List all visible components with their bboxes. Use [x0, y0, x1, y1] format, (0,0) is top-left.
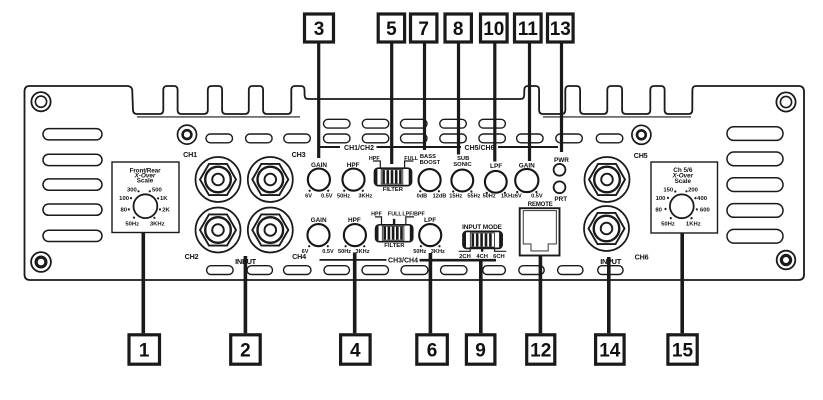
filter switch CH3/CH4 — [371, 211, 425, 249]
svg-text:600: 600 — [700, 207, 711, 213]
knob GAIN CH5/CH6 — [515, 162, 543, 199]
knob BASS BOOST — [417, 154, 447, 200]
RCA jack CH6 — [584, 206, 629, 251]
svg-text:5: 5 — [386, 19, 397, 40]
svg-text:6V: 6V — [305, 194, 312, 200]
INPUT MODE switch — [459, 224, 507, 260]
recess shadow line right — [543, 116, 691, 118]
knob HPF CH3/CH4 — [338, 217, 370, 255]
svg-text:3KHz: 3KHz — [150, 222, 165, 228]
svg-text:FILTER: FILTER — [384, 243, 405, 249]
svg-text:0dB: 0dB — [417, 194, 428, 200]
knob LPF CH5/CH6 — [483, 163, 516, 200]
RCA jack CH1 — [196, 157, 241, 202]
svg-text:300: 300 — [127, 187, 138, 193]
callout box 6 — [417, 335, 448, 364]
bracket CH5/CH6 — [425, 145, 558, 152]
svg-text:CH5: CH5 — [634, 151, 648, 160]
callout line 12 — [539, 256, 543, 334]
svg-text:0.5V: 0.5V — [321, 194, 333, 200]
Front/Rear dial knob — [134, 194, 158, 218]
svg-text:50Hz: 50Hz — [413, 249, 426, 255]
LED PWR — [554, 157, 570, 176]
svg-text:SONIC: SONIC — [453, 162, 472, 168]
mounting nut left — [178, 125, 197, 144]
svg-text:CH2: CH2 — [185, 252, 199, 261]
svg-text:50Hz: 50Hz — [483, 194, 496, 200]
knob GAIN CH3/CH4 — [302, 217, 334, 255]
svg-text:4: 4 — [350, 340, 361, 361]
svg-text:CH3/CH4: CH3/CH4 — [388, 258, 418, 265]
svg-text:PWR: PWR — [554, 157, 569, 164]
knob LPF CH3/CH4 — [413, 217, 445, 255]
svg-text:50Hz: 50Hz — [337, 194, 350, 200]
callout box 3 — [305, 14, 334, 42]
svg-text:15Hz: 15Hz — [449, 194, 462, 200]
bracket CH3/CH4 — [320, 258, 497, 265]
svg-text:50Hz: 50Hz — [338, 249, 351, 255]
RCA jack CH4 — [248, 208, 293, 253]
REMOTE jack — [520, 202, 560, 256]
svg-text:HPF: HPF — [348, 217, 361, 224]
svg-text:LPF: LPF — [490, 163, 502, 170]
callout line 7 — [423, 44, 426, 151]
svg-text:6V: 6V — [302, 249, 309, 255]
right vent slots — [727, 127, 783, 243]
svg-text:6V: 6V — [515, 194, 522, 200]
svg-text:CH3: CH3 — [292, 150, 306, 159]
callout line 8 — [457, 44, 460, 155]
small slots bottom row — [207, 266, 624, 275]
callout line 1 — [142, 233, 146, 334]
RCA jack CH2 — [196, 208, 241, 253]
svg-text:Scale: Scale — [675, 178, 692, 185]
svg-text:15: 15 — [672, 340, 694, 361]
svg-text:11: 11 — [518, 19, 539, 40]
callout box 7 — [411, 14, 437, 42]
callout line 14 — [607, 257, 611, 333]
callout box 4 — [341, 335, 371, 364]
svg-text:1: 1 — [139, 340, 150, 361]
callout line 13 — [560, 44, 563, 153]
callout box 13 — [548, 14, 574, 42]
Ch 5/6 X-Over Scale box — [651, 162, 718, 233]
svg-text:CH1: CH1 — [183, 150, 197, 159]
svg-text:0.5V: 0.5V — [322, 249, 334, 255]
mounting nut right — [632, 125, 651, 144]
bracket CH1/CH2 — [319, 145, 424, 152]
screw bottom-right — [777, 251, 796, 270]
svg-text:1K: 1K — [160, 196, 168, 202]
knob HPF CH1/CH2 — [337, 162, 373, 200]
knob SUB SONIC — [449, 156, 480, 200]
callout box 14 — [596, 335, 625, 364]
callout line 10 — [493, 44, 496, 162]
svg-text:FULL: FULL — [388, 211, 402, 217]
callout box 11 — [515, 14, 542, 42]
svg-text:CH5/CH6: CH5/CH6 — [465, 145, 495, 152]
RCA jack CH3 — [248, 157, 293, 202]
svg-text:50Hz: 50Hz — [125, 222, 139, 228]
callout line 5 — [390, 44, 393, 165]
screw top-right — [776, 92, 795, 111]
svg-text:BOOST: BOOST — [420, 160, 441, 166]
svg-text:PRT: PRT — [554, 196, 567, 203]
svg-text:100: 100 — [119, 196, 130, 202]
svg-text:400: 400 — [697, 196, 708, 202]
svg-text:INPUT MODE: INPUT MODE — [462, 224, 503, 231]
svg-text:10: 10 — [483, 19, 504, 40]
svg-text:8: 8 — [453, 19, 464, 40]
left vent slots — [43, 129, 102, 242]
screw bottom-left — [31, 252, 51, 272]
svg-text:12: 12 — [530, 340, 551, 361]
svg-text:6: 6 — [427, 340, 438, 361]
callout line 4 — [353, 253, 357, 334]
callout box 12 — [527, 335, 555, 364]
svg-text:500: 500 — [152, 187, 163, 193]
channel labels — [183, 150, 648, 262]
svg-text:FILTER: FILTER — [383, 187, 404, 193]
Front/Rear X-Over Scale box — [112, 162, 179, 233]
svg-text:1KHz: 1KHz — [686, 222, 701, 228]
callout line 15 — [680, 233, 684, 333]
knob GAIN CH1/CH2 — [305, 162, 333, 200]
callout line 2 — [244, 256, 248, 333]
callout line 9 — [479, 260, 483, 333]
svg-text:9: 9 — [475, 340, 486, 361]
svg-text:2: 2 — [240, 340, 251, 361]
RCA jack CH5 — [585, 157, 630, 202]
callout box 8 — [445, 14, 471, 42]
panel outline — [25, 86, 805, 280]
svg-text:CH6: CH6 — [635, 253, 649, 262]
svg-text:7: 7 — [418, 19, 429, 40]
callout box 2 — [231, 335, 261, 364]
svg-text:200: 200 — [688, 187, 699, 193]
Ch 5/6 dial knob — [670, 194, 694, 218]
callout line 11 — [528, 44, 531, 162]
svg-text:3KHz: 3KHz — [356, 249, 370, 255]
svg-text:INPUT: INPUT — [600, 257, 621, 266]
svg-text:150: 150 — [663, 187, 674, 193]
svg-text:REMOTE: REMOTE — [528, 202, 553, 208]
svg-text:3KHz: 3KHz — [431, 249, 445, 255]
screw top-left — [31, 92, 50, 111]
svg-text:GAIN: GAIN — [311, 217, 327, 224]
callout box 9 — [466, 335, 495, 364]
filter switch CH1/CH2 — [369, 156, 419, 193]
recess shadow line left — [137, 116, 300, 118]
callout line 3 — [317, 44, 320, 159]
small slots upper row — [324, 119, 506, 128]
callout box 1 — [129, 335, 160, 364]
svg-text:50Hz: 50Hz — [661, 222, 675, 228]
callout box 10 — [481, 14, 508, 42]
svg-text:0.5V: 0.5V — [531, 194, 543, 200]
small slots lower row — [206, 134, 623, 143]
svg-text:12dB: 12dB — [433, 194, 447, 200]
svg-text:3KHz: 3KHz — [358, 194, 372, 200]
svg-text:100: 100 — [656, 196, 667, 202]
svg-text:3: 3 — [314, 19, 325, 40]
LED PRT — [554, 181, 568, 203]
svg-text:2K: 2K — [162, 207, 170, 213]
callout box 5 — [378, 14, 404, 42]
svg-text:14: 14 — [599, 340, 621, 361]
svg-text:CH1/CH2: CH1/CH2 — [344, 145, 374, 152]
svg-text:13: 13 — [550, 19, 571, 40]
svg-text:80: 80 — [655, 207, 662, 213]
svg-text:1KHz: 1KHz — [501, 194, 515, 200]
svg-text:55Hz: 55Hz — [467, 194, 480, 200]
callout line 6 — [429, 253, 433, 333]
svg-text:80: 80 — [121, 207, 128, 213]
callout box 15 — [668, 335, 697, 364]
svg-text:Scale: Scale — [137, 178, 154, 185]
